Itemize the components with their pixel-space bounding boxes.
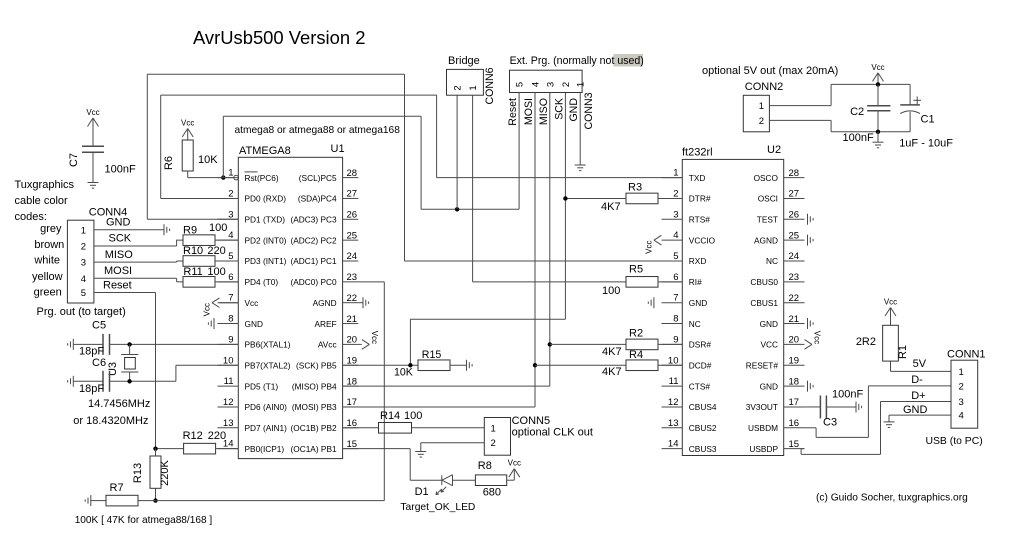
svg-text:AREF: AREF bbox=[314, 319, 336, 329]
ground below CONN1 bbox=[884, 422, 895, 428]
svg-text:4K7: 4K7 bbox=[601, 201, 621, 213]
label optional 5V out bbox=[702, 65, 838, 77]
label D- D+ GND bbox=[903, 374, 928, 416]
ground below CONN3 bbox=[575, 165, 586, 171]
svg-text:28: 28 bbox=[789, 168, 800, 179]
wire CONN3 pin5 Reset to reset net bbox=[518, 93, 520, 210]
U2 pin 13 stub bbox=[662, 418, 717, 433]
U1 pin 14 stub bbox=[218, 439, 285, 454]
svg-text:2: 2 bbox=[453, 85, 464, 90]
svg-text:4: 4 bbox=[959, 411, 964, 422]
wire R2 to U2 pin9 bbox=[658, 343, 682, 345]
U1 pin 17 stub bbox=[292, 397, 358, 412]
wire R3 to SCK bbox=[565, 197, 626, 199]
svg-text:CBUS1: CBUS1 bbox=[750, 298, 778, 308]
svg-text:Ext. Prg. (normally not used): Ext. Prg. (normally not used) bbox=[510, 55, 644, 67]
svg-text:3: 3 bbox=[228, 209, 233, 220]
svg-text:22: 22 bbox=[789, 293, 800, 304]
connector CONN5 bbox=[484, 415, 593, 455]
wire R8 to Vcc bbox=[507, 479, 515, 481]
Vcc symbol right of R8 bbox=[508, 459, 521, 481]
title AvrUsb500 Version 2 bbox=[193, 27, 365, 48]
svg-text:14: 14 bbox=[668, 439, 679, 450]
svg-text:TEST: TEST bbox=[757, 215, 778, 225]
svg-text:NC: NC bbox=[766, 256, 778, 266]
svg-text:100nF: 100nF bbox=[105, 164, 136, 176]
wire R3 to U2 pin2 bbox=[658, 197, 682, 199]
svg-text:680: 680 bbox=[483, 487, 501, 499]
wire TXD net U2 pin1 to U1 pin2 bbox=[161, 95, 683, 198]
ground left of R7 bbox=[85, 495, 91, 506]
svg-text:5: 5 bbox=[515, 82, 526, 87]
wire MISO net CONN3 to U1 pin18 bbox=[343, 93, 550, 387]
svg-text:12: 12 bbox=[223, 397, 234, 408]
U1 pin 27 stub bbox=[298, 189, 358, 204]
svg-text:1: 1 bbox=[576, 82, 587, 87]
capacitor C2 bbox=[843, 84, 891, 144]
U2 pin 8 stub bbox=[662, 314, 701, 329]
ground below C7 bbox=[88, 182, 99, 188]
U1 pin 9 stub bbox=[218, 334, 291, 349]
svg-text:Vcc: Vcc bbox=[871, 63, 884, 72]
svg-text:codes:: codes: bbox=[15, 211, 47, 223]
resistor R12 bbox=[183, 430, 227, 454]
svg-text:CTS#: CTS# bbox=[689, 381, 711, 391]
capacitor C6 bbox=[73, 357, 109, 395]
junction C2 top bbox=[876, 82, 880, 86]
connector CONN2 bbox=[743, 81, 783, 132]
wire R10 to U1 pin5 bbox=[215, 260, 238, 262]
U2 pin 25 stub bbox=[754, 230, 804, 245]
svg-text:PD4 (T0): PD4 (T0) bbox=[245, 277, 279, 287]
svg-text:CBUS3: CBUS3 bbox=[689, 444, 717, 454]
junction XTAL1 and crystal bbox=[127, 342, 131, 346]
svg-text:R12: R12 bbox=[183, 430, 203, 442]
CONN4 pin4 MOSI wire bbox=[94, 265, 183, 282]
svg-text:CBUS2: CBUS2 bbox=[689, 423, 717, 433]
svg-text:25: 25 bbox=[347, 230, 358, 241]
svg-text:Vcc: Vcc bbox=[884, 298, 897, 307]
U2 pin 24 stub bbox=[766, 251, 804, 266]
U2 pin 1 stub bbox=[662, 168, 706, 183]
svg-text:brown: brown bbox=[34, 239, 64, 251]
junction at U1 pin1 bbox=[221, 175, 225, 179]
svg-text:Vcc: Vcc bbox=[644, 240, 653, 253]
svg-text:USB (to PC): USB (to PC) bbox=[926, 436, 983, 447]
wire C5 to U1 pin9 XTAL1 bbox=[110, 343, 239, 345]
svg-text:(ADC0) PC0: (ADC0) PC0 bbox=[290, 277, 336, 287]
CONN4 pin5 Reset wire bbox=[94, 280, 156, 449]
resistor R5 bbox=[602, 264, 658, 298]
wire R9 to U1 pin4 bbox=[215, 239, 238, 241]
wire U1 pin15 to LED bbox=[343, 449, 442, 481]
U2 pin 18 stub bbox=[760, 376, 805, 391]
svg-text:13: 13 bbox=[668, 418, 679, 429]
svg-text:AGND: AGND bbox=[754, 235, 778, 245]
wire R15 to ground bbox=[450, 364, 467, 366]
label Ext. Prg. (normally not used) bbox=[510, 54, 644, 67]
svg-text:DTR#: DTR# bbox=[689, 194, 711, 204]
CONN3 pin signal labels bbox=[507, 98, 580, 126]
svg-text:R15: R15 bbox=[422, 349, 442, 361]
U1 pin 15 stub bbox=[290, 439, 358, 454]
junction reset and CONN6 pin2 bbox=[455, 207, 459, 211]
svg-text:(OC1A) PB1: (OC1A) PB1 bbox=[290, 444, 336, 454]
wire R1 to CONN1 5V bbox=[891, 358, 952, 371]
capacitor C7 bbox=[68, 130, 136, 183]
svg-text:15: 15 bbox=[789, 439, 800, 450]
svg-text:Vcc: Vcc bbox=[508, 459, 521, 468]
junction C2 bottom bbox=[876, 130, 880, 134]
svg-text:C2: C2 bbox=[850, 106, 864, 118]
svg-text:CONN1: CONN1 bbox=[947, 349, 986, 361]
svg-text:100: 100 bbox=[404, 410, 422, 422]
svg-text:4K7: 4K7 bbox=[602, 346, 622, 358]
junction R3 SCK bbox=[563, 196, 567, 200]
svg-text:9: 9 bbox=[673, 334, 678, 345]
ground at U1 pin22 AGND bbox=[358, 297, 368, 308]
note Tuxgraphics cable color codes bbox=[15, 179, 75, 223]
svg-text:220K: 220K bbox=[159, 459, 171, 485]
Vcc symbol above R1 bbox=[884, 298, 897, 326]
U1 pin 12 stub bbox=[218, 397, 288, 412]
U2 pin 26 stub bbox=[757, 210, 805, 225]
svg-text:4: 4 bbox=[673, 230, 678, 241]
svg-text:(SCK) PB5: (SCK) PB5 bbox=[296, 360, 337, 370]
resistor R14 bbox=[343, 410, 423, 433]
svg-text:Target_OK_LED: Target_OK_LED bbox=[400, 502, 475, 513]
note atmega8 or atmega88 or atmega168 bbox=[235, 125, 401, 136]
U2 pin 21 stub bbox=[760, 314, 805, 329]
svg-text:PB6(XTAL1): PB6(XTAL1) bbox=[245, 340, 291, 350]
svg-text:GND: GND bbox=[760, 319, 778, 329]
U2 pin 16 stub bbox=[748, 418, 804, 433]
svg-text:Vcc: Vcc bbox=[203, 303, 212, 316]
svg-text:8: 8 bbox=[228, 314, 233, 325]
wire LED to R8 bbox=[453, 479, 476, 481]
wire SCK net CONN3 to U1 pin19 bbox=[343, 93, 566, 366]
U2 pin 4 stub bbox=[662, 230, 716, 245]
svg-text:Reset: Reset bbox=[103, 280, 132, 292]
svg-text:26: 26 bbox=[347, 210, 358, 221]
U2 pin 15 stub bbox=[749, 439, 804, 454]
svg-text:CONN6: CONN6 bbox=[484, 67, 496, 104]
LED D1 bbox=[415, 475, 453, 498]
svg-text:3V3OUT: 3V3OUT bbox=[746, 402, 778, 412]
svg-text:7: 7 bbox=[673, 293, 678, 304]
label Prg. out (to target) bbox=[37, 306, 126, 318]
svg-text:10K: 10K bbox=[198, 154, 218, 166]
svg-text:GND: GND bbox=[568, 98, 580, 122]
svg-text:100K [ 47K for atmega88/168 ]: 100K [ 47K for atmega88/168 ] bbox=[75, 515, 213, 526]
svg-text:RTS#: RTS# bbox=[689, 215, 710, 225]
U2 pin 28 stub bbox=[754, 168, 805, 183]
svg-text:12: 12 bbox=[668, 397, 679, 408]
svg-text:GND: GND bbox=[106, 217, 131, 229]
U2 pin 5 stub bbox=[662, 251, 707, 266]
svg-text:16: 16 bbox=[789, 418, 800, 429]
svg-text:GND: GND bbox=[760, 381, 778, 391]
connector CONN4 bbox=[67, 207, 127, 304]
svg-text:2: 2 bbox=[81, 242, 86, 253]
svg-text:2: 2 bbox=[561, 82, 572, 87]
resistor R13 bbox=[132, 449, 171, 501]
svg-text:1: 1 bbox=[228, 168, 233, 179]
U1 pin 25 stub bbox=[290, 230, 358, 245]
svg-text:3: 3 bbox=[81, 258, 86, 269]
resistor R4 bbox=[602, 349, 658, 378]
svg-text:(SDA)PC4: (SDA)PC4 bbox=[298, 194, 337, 204]
svg-text:1: 1 bbox=[468, 85, 479, 90]
svg-text:26: 26 bbox=[789, 210, 800, 221]
svg-text:USBDP: USBDP bbox=[749, 444, 778, 454]
Vcc symbol at U2 pin4 VCCIO bbox=[644, 235, 661, 253]
svg-text:6: 6 bbox=[673, 272, 678, 283]
svg-text:21: 21 bbox=[789, 314, 800, 325]
svg-text:CBUS4: CBUS4 bbox=[689, 402, 717, 412]
svg-text:27: 27 bbox=[347, 189, 358, 200]
wire U2 pin17 to C3 bbox=[805, 406, 821, 408]
svg-text:OSCO: OSCO bbox=[754, 173, 779, 183]
wire R11 to U1 pin6 bbox=[215, 281, 238, 283]
svg-text:10: 10 bbox=[668, 355, 679, 366]
U1 pin 20 stub bbox=[318, 335, 358, 350]
svg-text:4K7: 4K7 bbox=[602, 366, 622, 378]
resistor R11 bbox=[183, 266, 226, 287]
svg-text:C3: C3 bbox=[823, 417, 837, 429]
svg-text:CONN3: CONN3 bbox=[583, 92, 595, 129]
svg-text:10: 10 bbox=[223, 355, 234, 366]
Vcc symbol above C7 bbox=[86, 108, 99, 130]
svg-text:U1: U1 bbox=[331, 143, 345, 155]
svg-text:(OC1B) PB2: (OC1B) PB2 bbox=[290, 423, 336, 433]
U1 pin 1 stub bbox=[218, 168, 239, 179]
wire RXD net U2 pin5 to U1 pin3 bbox=[147, 74, 682, 261]
U2 pin 2 stub bbox=[662, 188, 711, 203]
svg-text:5: 5 bbox=[673, 251, 678, 262]
svg-text:24: 24 bbox=[789, 251, 800, 262]
svg-text:AvrUsb500 Version 2: AvrUsb500 Version 2 bbox=[193, 27, 365, 48]
svg-text:100nF: 100nF bbox=[843, 132, 874, 144]
svg-text:CONN2: CONN2 bbox=[745, 81, 784, 93]
svg-text:1uF - 10uF: 1uF - 10uF bbox=[899, 138, 953, 150]
label crystal frequency bbox=[73, 398, 150, 427]
svg-text:(c) Guido Socher, tuxgraphics.: (c) Guido Socher, tuxgraphics.org bbox=[816, 493, 968, 504]
capacitor C1 electrolytic bbox=[899, 84, 953, 149]
U1 pin 4 stub bbox=[218, 230, 287, 245]
svg-text:(ADC3) PC3: (ADC3) PC3 bbox=[290, 215, 336, 225]
Vcc symbol above R6 bbox=[181, 119, 194, 141]
Vcc symbol at U1 pin20 AVcc bbox=[358, 331, 379, 349]
ground right of R15 bbox=[467, 360, 473, 371]
wire USBDM to CONN1 D- bbox=[805, 386, 952, 438]
wire CONN6 pin1 to RI net bbox=[473, 95, 626, 282]
svg-text:4: 4 bbox=[531, 82, 542, 87]
svg-text:R1: R1 bbox=[897, 345, 909, 359]
U1 pin 19 stub bbox=[296, 355, 358, 370]
svg-text:18pF: 18pF bbox=[79, 383, 104, 395]
svg-text:MOSI: MOSI bbox=[523, 98, 535, 125]
junction XTAL2 and crystal bbox=[127, 379, 131, 383]
svg-text:7: 7 bbox=[228, 293, 233, 304]
wire reset net riser bbox=[223, 116, 519, 209]
svg-text:AGND: AGND bbox=[313, 298, 337, 308]
svg-text:MISO: MISO bbox=[538, 98, 550, 125]
svg-text:5V: 5V bbox=[913, 358, 927, 370]
U2 pin 14 stub bbox=[662, 439, 717, 454]
resistor R15 bbox=[394, 349, 450, 379]
svg-text:GND: GND bbox=[245, 319, 263, 329]
svg-text:2: 2 bbox=[759, 116, 764, 127]
svg-text:Reset: Reset bbox=[507, 98, 519, 126]
U1 pin 5 stub bbox=[218, 251, 287, 266]
svg-text:TXD: TXD bbox=[689, 173, 706, 183]
resistor R9 bbox=[183, 222, 227, 245]
U1 pin 2 stub bbox=[218, 188, 287, 203]
svg-text:RI#: RI# bbox=[689, 277, 702, 287]
svg-text:CONN5: CONN5 bbox=[512, 415, 551, 427]
ground at CONN4 pin1 bbox=[164, 224, 170, 235]
U1 pin 13 stub bbox=[218, 418, 288, 433]
svg-text:USBDM: USBDM bbox=[748, 423, 778, 433]
resistor R8 bbox=[475, 460, 506, 499]
svg-text:100: 100 bbox=[602, 285, 620, 297]
svg-text:NC: NC bbox=[689, 319, 701, 329]
ground at U2 pin26 TEST bbox=[808, 214, 814, 225]
svg-text:R4: R4 bbox=[629, 349, 643, 361]
svg-text:Vcc: Vcc bbox=[86, 108, 99, 117]
junction MISO and R2 bbox=[548, 342, 552, 346]
svg-text:grey: grey bbox=[40, 223, 62, 235]
label USB (to PC) bbox=[926, 436, 983, 447]
svg-text:R7: R7 bbox=[110, 482, 124, 494]
svg-text:2: 2 bbox=[673, 188, 678, 199]
resistor R7 bbox=[91, 482, 156, 506]
wire R12 to reset junction bbox=[156, 448, 184, 450]
inverted pin circle U1 pin1 bbox=[234, 175, 239, 180]
svg-text:AVcc: AVcc bbox=[318, 340, 337, 350]
U1 pin 8 stub bbox=[218, 314, 263, 329]
U1 pin 18 stub bbox=[292, 376, 358, 391]
svg-text:220: 220 bbox=[207, 245, 225, 257]
svg-text:R9: R9 bbox=[183, 225, 197, 237]
svg-text:white: white bbox=[33, 255, 60, 267]
svg-text:yellow: yellow bbox=[32, 271, 63, 283]
svg-text:28: 28 bbox=[347, 168, 358, 179]
U1 pin 7 stub bbox=[218, 293, 259, 308]
svg-text:D-: D- bbox=[911, 374, 923, 386]
svg-text:U2: U2 bbox=[767, 144, 781, 156]
svg-text:21: 21 bbox=[347, 314, 358, 325]
svg-text:PD2 (INT0): PD2 (INT0) bbox=[245, 235, 287, 245]
svg-text:optional 5V out (max 20mA): optional 5V out (max 20mA) bbox=[702, 65, 838, 77]
svg-text:1: 1 bbox=[759, 101, 764, 112]
U2 pin 27 stub bbox=[758, 189, 805, 204]
wire R5 to U2 pin6 bbox=[658, 281, 682, 283]
svg-text:1: 1 bbox=[491, 423, 496, 434]
svg-text:13: 13 bbox=[223, 418, 234, 429]
svg-text:Tuxgraphics: Tuxgraphics bbox=[15, 179, 75, 191]
svg-text:100nF: 100nF bbox=[832, 389, 863, 401]
svg-text:220: 220 bbox=[208, 430, 226, 442]
CONN4 pin1 GND wire bbox=[94, 217, 164, 230]
U2 pin 11 stub bbox=[662, 376, 711, 391]
svg-text:3: 3 bbox=[545, 82, 556, 87]
svg-text:100: 100 bbox=[209, 222, 227, 234]
svg-text:Vcc: Vcc bbox=[813, 331, 822, 344]
resistor R1 bbox=[856, 325, 909, 361]
svg-text:MOSI: MOSI bbox=[104, 265, 132, 277]
CONN4 wire color labels bbox=[32, 223, 64, 299]
wire CONN5 pin2 to ground bbox=[421, 443, 485, 452]
wire R14 to CONN5 pin1 bbox=[412, 427, 485, 429]
U2 pin 9 stub bbox=[662, 334, 712, 349]
wire CONN2 pin1 to top rail bbox=[769, 84, 910, 105]
U1 pin 16 stub bbox=[290, 418, 358, 433]
svg-text:Prg. out (to target): Prg. out (to target) bbox=[37, 306, 126, 318]
U2 pin 23 stub bbox=[750, 272, 804, 287]
svg-text:optional CLK out: optional CLK out bbox=[512, 427, 593, 439]
svg-text:Bridge: Bridge bbox=[448, 55, 480, 67]
ground at U2 pin25 AGND bbox=[808, 235, 814, 246]
svg-text:PD7 (AIN1): PD7 (AIN1) bbox=[245, 423, 288, 433]
svg-text:VCC: VCC bbox=[760, 340, 778, 350]
svg-text:C5: C5 bbox=[92, 320, 106, 332]
Vcc symbol above C2 bbox=[871, 63, 884, 85]
svg-text:PD5 (T1): PD5 (T1) bbox=[245, 381, 279, 391]
svg-text:SCK: SCK bbox=[109, 233, 132, 245]
svg-text:R3: R3 bbox=[628, 182, 642, 194]
svg-text:(ADC2) PC2: (ADC2) PC2 bbox=[290, 235, 336, 245]
crystal U3 bbox=[107, 344, 138, 381]
svg-text:PB7(XTAL2): PB7(XTAL2) bbox=[245, 360, 291, 370]
svg-text:19: 19 bbox=[789, 355, 800, 366]
svg-text:22: 22 bbox=[347, 293, 358, 304]
wire C6 to U1 pin10 XTAL2 bbox=[110, 365, 239, 381]
U2 pin 6 stub bbox=[662, 272, 703, 287]
U2 pin 19 stub bbox=[746, 355, 805, 370]
svg-text:Vcc: Vcc bbox=[370, 331, 379, 344]
svg-text:10K: 10K bbox=[394, 367, 413, 379]
svg-text:OSCI: OSCI bbox=[758, 194, 778, 204]
wire R4 to U2 pin10 bbox=[658, 364, 682, 366]
junction reset divider top bbox=[153, 446, 157, 450]
svg-text:D1: D1 bbox=[415, 486, 429, 498]
svg-text:CBUS0: CBUS0 bbox=[750, 277, 778, 287]
junction reset divider bottom bbox=[153, 498, 157, 502]
U2 pin 12 stub bbox=[662, 397, 717, 412]
resistor R3 bbox=[601, 182, 658, 214]
svg-text:23: 23 bbox=[347, 272, 358, 283]
svg-text:18pF: 18pF bbox=[79, 346, 104, 358]
svg-text:17: 17 bbox=[789, 397, 800, 408]
wire USBDP to CONN1 D+ bbox=[801, 402, 951, 455]
svg-text:(SCL)PC5: (SCL)PC5 bbox=[299, 173, 337, 183]
ground at U2 pin7 GND bbox=[648, 297, 654, 308]
ground left of C6 bbox=[68, 376, 74, 387]
wire U1 pin23 PC0 to divider bbox=[156, 282, 385, 501]
U1 pin 21 stub bbox=[314, 314, 358, 329]
junction MOSI and R4 bbox=[533, 363, 537, 367]
svg-text:R14: R14 bbox=[380, 410, 400, 422]
svg-text:R11: R11 bbox=[183, 266, 202, 278]
U2 pin 22 stub bbox=[750, 293, 804, 308]
wire R12 to U1 pin14 bbox=[216, 448, 239, 450]
svg-text:or 18.4320MHz: or 18.4320MHz bbox=[73, 415, 148, 427]
Vcc symbol at U1 pin7 bbox=[203, 298, 239, 316]
ground at U2 pin18 GND bbox=[808, 381, 814, 392]
U1 pin 11 stub bbox=[218, 376, 279, 391]
